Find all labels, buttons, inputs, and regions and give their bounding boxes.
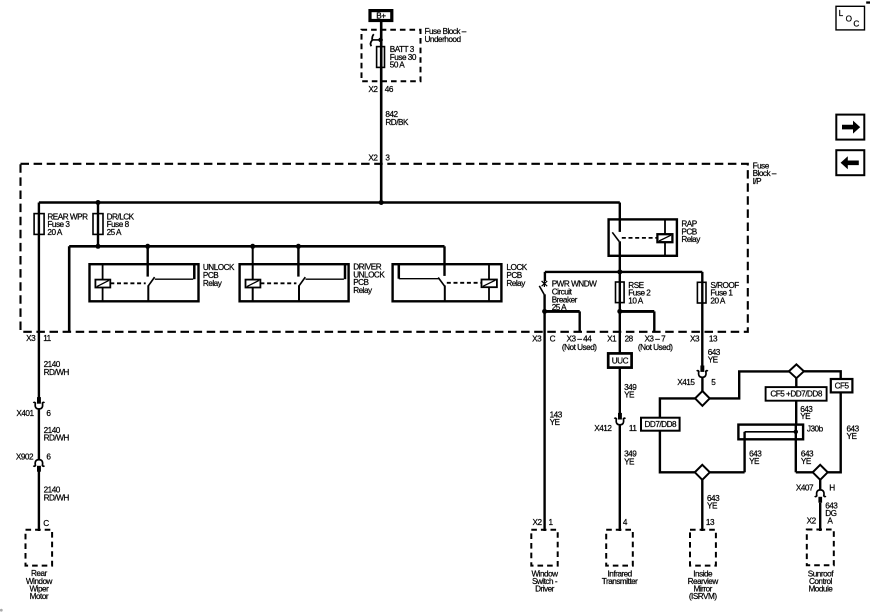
pin label C — [43, 519, 49, 528]
wire RSE to UUC — [619, 311, 621, 353]
splice diamond right top — [789, 364, 804, 378]
svg-text:X412: X412 — [594, 424, 612, 433]
svg-text:X401: X401 — [16, 409, 34, 418]
svg-text:H: H — [829, 484, 835, 493]
pin label X2 46 — [368, 85, 393, 94]
pin label X3 C — [532, 334, 555, 343]
svg-text:X3 – 44: X3 – 44 — [567, 334, 593, 343]
junction main bus / B+ feed — [379, 200, 384, 205]
rear window wiper motor — [26, 530, 53, 601]
sunroof control module — [807, 530, 834, 594]
fuse DR/LCK Fuse 8 25 A — [93, 212, 135, 237]
svg-text:DD7/DD8: DD7/DD8 — [645, 420, 677, 429]
junction relay bus / unlock relay — [145, 244, 150, 249]
wire label 643 YE (sunroof feed) — [708, 348, 721, 365]
wire diamond to ISRVM — [701, 480, 703, 532]
connector X407 pin H — [796, 484, 835, 503]
splice diamond ISRVM — [695, 465, 710, 480]
pin label X2 3 — [368, 154, 390, 163]
wire label 643 YE (left leg) — [749, 449, 762, 466]
svg-text:X1: X1 — [607, 334, 617, 343]
svg-text:X2: X2 — [368, 85, 378, 94]
fuse block IP dashed box — [21, 161, 777, 331]
svg-text:CF5 +DD7/DD8: CF5 +DD7/DD8 — [770, 390, 823, 399]
pin label X3 13 — [690, 334, 718, 343]
wire label 643 YE (ISRVM) — [707, 494, 720, 511]
wire label 349 YE (lower) — [624, 450, 637, 467]
pin label X2 1 — [532, 518, 553, 527]
stray mark bottom left — [0, 609, 3, 612]
svg-text:YE: YE — [749, 457, 760, 466]
svg-text:10 A: 10 A — [628, 296, 643, 305]
svg-text:Transmitter: Transmitter — [602, 577, 638, 586]
junction relay bus / driver unlock coil — [250, 244, 255, 249]
page corner mark — [866, 1, 870, 3]
junction block J30b — [738, 425, 823, 473]
svg-text:50 A: 50 A — [390, 61, 405, 70]
connector X902 pin 6 — [16, 452, 52, 471]
svg-text:RD/WH: RD/WH — [44, 434, 70, 443]
svg-text:20 A: 20 A — [47, 228, 62, 237]
window switch driver — [531, 530, 558, 594]
svg-text:YE: YE — [624, 390, 635, 399]
wire CF5 down to X407 diamond — [828, 392, 841, 472]
svg-text:X3: X3 — [26, 334, 36, 343]
svg-text:Relay: Relay — [203, 279, 223, 288]
svg-text:YE: YE — [708, 356, 719, 365]
connector X412 pin 11 — [594, 413, 637, 433]
wire into J30b — [795, 401, 797, 425]
svg-text:O: O — [846, 14, 852, 23]
wire X412 to infrared transmitter — [619, 425, 621, 531]
wire label 643 YE (far right) — [847, 424, 860, 441]
option box CF5 +DD7/DD8 — [766, 387, 827, 401]
wire branch to X3-44 — [545, 311, 580, 331]
wire label 2140 RD/WH (middle) — [44, 426, 70, 443]
svg-text:YE: YE — [550, 418, 561, 427]
svg-text:J30b: J30b — [807, 425, 824, 434]
svg-text:YE: YE — [847, 432, 858, 441]
wire diamond to CF5 option — [804, 371, 841, 379]
wire diamond to X407 — [819, 480, 821, 491]
svg-text:11: 11 — [43, 334, 51, 343]
pin label X2 A — [807, 517, 834, 526]
svg-text:X3 – 7: X3 – 7 — [644, 334, 666, 343]
svg-text:YE: YE — [624, 457, 635, 466]
relay DRIVER UNLOCK PCB Relay — [240, 246, 386, 301]
wire label 842 RD/BK — [385, 110, 409, 127]
splice diamond sunroof — [813, 465, 828, 480]
infrared transmitter — [602, 530, 638, 586]
wire REAR WPR branch — [38, 203, 40, 532]
svg-text:Module: Module — [808, 584, 833, 593]
svg-text:X415: X415 — [677, 378, 695, 387]
junction lower bus / RAP output — [617, 269, 622, 274]
wire S/ROOF fuse drop — [701, 272, 703, 366]
svg-text:46: 46 — [385, 85, 394, 94]
svg-text:Underhood: Underhood — [425, 35, 462, 44]
svg-text:YE: YE — [801, 457, 812, 466]
svg-text:B+: B+ — [376, 11, 386, 20]
svg-text:Driver: Driver — [535, 584, 555, 593]
pin label 4 — [623, 518, 628, 527]
wire label 643 YE (to J30b) — [800, 405, 813, 421]
pin label X3-7 not used — [638, 334, 673, 352]
connector X415 pin 5 — [677, 366, 716, 388]
wire diamond to CF5+DD7/DD8 box — [795, 378, 797, 387]
svg-text:Motor: Motor — [30, 592, 49, 601]
junction relay bus / driver unlock switch — [296, 244, 301, 249]
wire DR/LCK fuse drop — [97, 203, 99, 247]
circuit breaker PWR WNDW 25 A — [539, 272, 597, 312]
fuse block underhood dashed box — [362, 27, 467, 81]
nav icon arrow right — [836, 115, 864, 140]
wire label 2140 RD/WH (lower) — [44, 486, 70, 503]
svg-text:20 A: 20 A — [710, 296, 725, 305]
fuse BATT 3 Fuse 30 50 A — [377, 45, 417, 70]
svg-text:C: C — [43, 519, 49, 528]
fuse S/ROOF Fuse 1 20 A — [697, 281, 739, 305]
option box DD7/DD8 — [641, 418, 680, 431]
pin label X3 11 — [26, 334, 51, 343]
wire label 643 DG — [825, 502, 838, 519]
relay RAP PCB Relay — [609, 203, 702, 272]
svg-text:X407: X407 — [796, 484, 814, 493]
svg-text:YE: YE — [707, 501, 718, 510]
svg-text:I/P: I/P — [753, 177, 763, 186]
fuse RSE Fuse 2 10 A — [616, 281, 652, 305]
option box UUC — [608, 353, 631, 367]
junction relay bus / DR-LCK — [96, 244, 101, 249]
svg-text:C: C — [550, 334, 556, 343]
wire J30b right leg to X407 diamond — [796, 471, 813, 473]
wire B+ to underhood fuse — [380, 22, 383, 203]
splice diamond S240 top — [695, 391, 710, 406]
wire UUC to X412 — [619, 368, 621, 413]
connector X401 pin 6 — [16, 397, 51, 418]
svg-text:Relay: Relay — [353, 286, 373, 295]
svg-text:25 A: 25 A — [107, 228, 122, 237]
junction main bus / DR-LCK fuse — [96, 200, 101, 205]
pin label X1 28 — [607, 334, 633, 343]
wire J30b left leg to lower diamond — [709, 471, 744, 473]
svg-text:RD/BK: RD/BK — [385, 118, 409, 127]
main bus wire — [39, 201, 620, 204]
svg-text:(Not Used): (Not Used) — [562, 343, 597, 352]
svg-text:CF5: CF5 — [835, 382, 850, 391]
inside rearview mirror ISRVM — [688, 530, 719, 601]
terminal clip on wire — [371, 34, 383, 46]
svg-text:Relay: Relay — [506, 279, 526, 288]
wire label 2140 RD/WH (upper) — [44, 360, 70, 377]
svg-text:RD/WH: RD/WH — [44, 368, 70, 377]
svg-text:C: C — [853, 19, 859, 28]
svg-text:X3: X3 — [690, 334, 700, 343]
relay bus wire — [69, 246, 444, 331]
B+ power terminal — [370, 11, 392, 21]
LOC nav icon — [836, 6, 865, 30]
wire label 143 YE — [550, 411, 563, 428]
wire diamond to DD7/DD8 — [660, 398, 696, 417]
pin label 13 — [706, 518, 715, 527]
svg-text:13: 13 — [709, 334, 718, 343]
svg-text:X902: X902 — [16, 452, 34, 461]
wire label 643 YE (right leg) — [801, 449, 814, 466]
wire RSE fuse drop — [619, 272, 621, 312]
svg-text:X2: X2 — [368, 154, 378, 163]
svg-text:13: 13 — [706, 518, 715, 527]
svg-text:UUC: UUC — [612, 356, 629, 365]
wire DD7/DD8 to lower diamond — [660, 431, 696, 473]
svg-text:RD/WH: RD/WH — [44, 493, 70, 502]
pin label X3-44 not used — [562, 334, 597, 352]
svg-text:YE: YE — [800, 412, 811, 421]
svg-text:(ISRVM): (ISRVM) — [689, 592, 718, 601]
svg-text:28: 28 — [625, 334, 634, 343]
wire branch to X3-7 — [620, 311, 655, 331]
wire X407 to sunroof control module — [819, 503, 821, 531]
junction breaker output — [542, 309, 547, 314]
relay LOCK PCB Relay — [393, 246, 528, 301]
svg-text:11: 11 — [629, 424, 637, 433]
nav icon arrow left — [836, 150, 864, 175]
svg-text:(Not Used): (Not Used) — [638, 343, 673, 352]
wire breaker to window switch — [543, 311, 545, 531]
wire X415 to splice diamond — [701, 378, 703, 392]
svg-text:X3: X3 — [532, 334, 542, 343]
wire diamond to CF5 riser — [709, 371, 789, 398]
relay UNLOCK PCB Relay — [90, 246, 236, 301]
junction RSE output — [617, 309, 622, 314]
fuse REAR WPR Fuse 3 20 A — [34, 212, 88, 237]
wire label 349 YE (upper) — [624, 383, 637, 400]
svg-text:Relay: Relay — [681, 235, 701, 244]
wire lower feed bus — [545, 271, 702, 273]
svg-text:X2: X2 — [532, 518, 542, 527]
option box CF5 — [831, 379, 853, 392]
svg-text:X2: X2 — [807, 517, 817, 526]
